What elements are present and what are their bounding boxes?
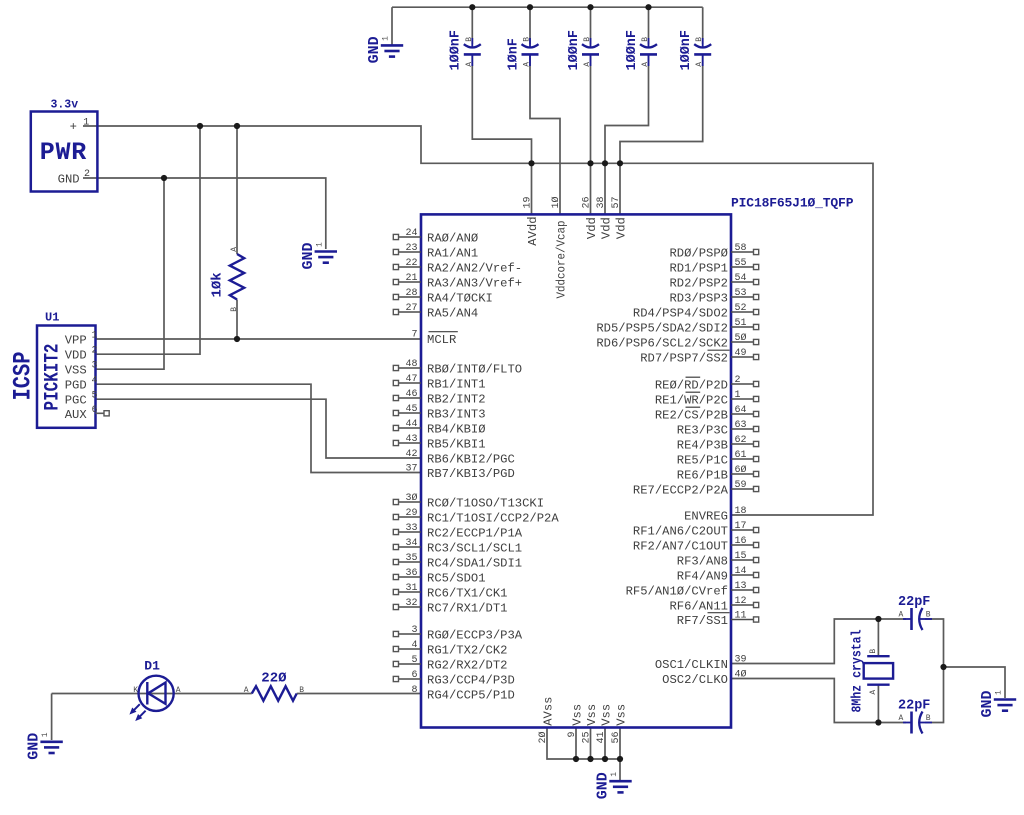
svg-text:18: 18 [735, 506, 747, 517]
wire 10k bottom [236, 300, 238, 340]
svg-text:Vss: Vss [614, 704, 628, 726]
svg-text:VPP: VPP [65, 334, 87, 348]
svg-text:1: 1 [382, 36, 391, 41]
svg-text:RE5/P1C: RE5/P1C [677, 454, 728, 468]
svg-text:3.3v: 3.3v [51, 99, 79, 112]
pin 1 VPP of U1 [65, 331, 98, 348]
pin 53 RD3/PSP3 of U2 [669, 288, 758, 305]
pin 44 RB4/KBI0 of U2 [393, 419, 485, 436]
pin 13 RF5/AN10/CVref of U2 [626, 581, 759, 598]
wire VSS to GND [96, 178, 165, 369]
svg-text:1ØnF: 1ØnF [506, 38, 521, 70]
svg-text:RD5/PSP5/SDA2/SDI2: RD5/PSP5/SDA2/SDI2 [596, 322, 728, 336]
svg-text:1ØØnF: 1ØØnF [567, 30, 582, 71]
junction Vss bus 9 [573, 756, 579, 762]
svg-text:RC6/TX1/CK1: RC6/TX1/CK1 [427, 587, 507, 601]
wire cap C5 top [702, 7, 704, 44]
svg-text:41: 41 [596, 731, 607, 743]
pin 7 MCLR of U2 [399, 330, 458, 347]
svg-text:RE1/WR/P2C: RE1/WR/P2C [655, 394, 728, 408]
svg-text:U1: U1 [45, 311, 59, 325]
svg-text:B: B [695, 37, 704, 42]
svg-text:A: A [230, 247, 239, 252]
svg-text:RA4/TØCKI: RA4/TØCKI [427, 292, 493, 306]
svg-text:RG3/CCP4/P3D: RG3/CCP4/P3D [427, 674, 515, 688]
svg-text:RD7/PSP7/SS2: RD7/PSP7/SS2 [640, 352, 728, 366]
svg-text:42: 42 [405, 449, 417, 460]
svg-text:OSC1/CLKIN: OSC1/CLKIN [655, 658, 728, 672]
svg-text:ICSP: ICSP [9, 352, 38, 401]
pin 3 RG0/ECCP3/P3A of U2 [393, 625, 522, 642]
svg-text:RG1/TX2/CK2: RG1/TX2/CK2 [427, 644, 507, 658]
svg-text:22Ø: 22Ø [261, 670, 287, 686]
wire Vss 9 stub [575, 728, 577, 760]
wire cap C2 to Vddcore/Vcap pin [530, 54, 560, 214]
svg-text:A: A [869, 690, 878, 695]
svg-text:1: 1 [83, 118, 89, 129]
svg-text:RG2/RX2/DT2: RG2/RX2/DT2 [427, 659, 507, 673]
pin 33 RC2/ECCP1/P1A of U2 [393, 523, 522, 540]
junction caps GND node [940, 664, 946, 670]
pin 18 ENVREG of U2 [684, 506, 746, 523]
svg-text:7: 7 [411, 330, 417, 341]
pin 23 RA1/AN1 of U2 [393, 243, 478, 260]
svg-text:REØ/RD/P2D: REØ/RD/P2D [655, 379, 728, 393]
svg-text:B: B [523, 37, 532, 42]
junction Vdd rail / pin38 [602, 160, 608, 166]
svg-text:VSS: VSS [65, 364, 87, 378]
pin 27 RA5/AN4 of U2 [393, 303, 478, 320]
pin 63 RE3/P3C of U2 [677, 420, 759, 437]
capacitor C5 100nF [679, 30, 711, 71]
svg-text:B: B [926, 611, 931, 620]
svg-text:RF2/AN7/C1OUT: RF2/AN7/C1OUT [633, 540, 728, 554]
pin 57 Vdd of U2 (top) [611, 196, 628, 239]
svg-text:Vss: Vss [585, 704, 599, 726]
svg-text:+: + [70, 120, 77, 134]
capacitor C3 100nF [567, 30, 599, 71]
svg-text:AUX: AUX [65, 408, 88, 422]
svg-text:1: 1 [610, 772, 619, 777]
pin 10 Vddcore/Vcap of U2 (top) [550, 196, 568, 298]
svg-text:A: A [899, 714, 904, 723]
svg-text:5: 5 [91, 391, 97, 402]
svg-text:MCLR: MCLR [427, 333, 456, 347]
svg-text:A: A [583, 62, 592, 67]
svg-text:RBØ/INTØ/FLTO: RBØ/INTØ/FLTO [427, 363, 522, 377]
svg-text:RA1/AN1: RA1/AN1 [427, 247, 478, 261]
pin 41 Vss of U2 (bottom) [596, 704, 613, 744]
svg-text:RGØ/ECCP3/P3A: RGØ/ECCP3/P3A [427, 629, 523, 643]
wire cap C1 top [471, 7, 473, 44]
pin 50 RD6/PSP6/SCL2/SCK2 of U2 [596, 332, 758, 350]
svg-text:RD2/PSP2: RD2/PSP2 [669, 277, 728, 291]
pin 22 RA2/AN2/Vref- of U2 [393, 258, 522, 275]
svg-text:Vdd: Vdd [599, 217, 613, 239]
svg-text:B: B [230, 307, 239, 312]
svg-text:RD6/PSP6/SCL2/SCK2: RD6/PSP6/SCL2/SCK2 [596, 337, 728, 351]
svg-text:8Mhz crystal: 8Mhz crystal [851, 630, 866, 713]
svg-text:B: B [583, 37, 592, 42]
pin 38 Vdd of U2 (top) [596, 196, 613, 239]
resistor R2 220 [244, 670, 304, 700]
svg-text:Vss: Vss [570, 704, 584, 726]
pin 39 OSC1/CLKIN of U2 [655, 655, 747, 672]
svg-text:PGC: PGC [65, 394, 87, 408]
pin 4 RG1/TX2/CK2 of U2 [393, 640, 507, 657]
svg-text:Vdd: Vdd [614, 217, 628, 239]
svg-text:RC3/SCL1/SCL1: RC3/SCL1/SCL1 [427, 542, 522, 556]
junction Vss bus 56 [617, 756, 623, 762]
svg-text:RC2/ECCP1/P1A: RC2/ECCP1/P1A [427, 527, 523, 541]
svg-text:2Ø: 2Ø [537, 731, 549, 743]
wire 10k top [236, 126, 238, 254]
pin 34 RC3/SCL1/SCL1 of U2 [393, 538, 522, 555]
capacitor C6 22pF [898, 595, 932, 630]
pin 45 RB3/INT3 of U2 [393, 404, 485, 421]
pin 37 RB7/KBI3/PGD of U2 [399, 464, 515, 481]
pin 30 RC0/T1OSO/T13CKI of U2 [393, 492, 544, 510]
svg-text:26: 26 [582, 196, 593, 208]
pin 26 Vdd of U2 (top) [582, 196, 599, 239]
svg-text:B: B [641, 37, 650, 42]
wire VDD to +3.3V [96, 126, 201, 354]
pin 31 RC6/TX1/CK1 of U2 [393, 583, 507, 600]
junction +3.3V / VDD [197, 123, 203, 129]
pin 5 RG2/RX2/DT2 of U2 [393, 655, 507, 672]
wire crystal bottom to GND node [925, 667, 944, 723]
svg-text:1ØØnF: 1ØØnF [449, 30, 464, 71]
junction GND rail / C3 [587, 4, 593, 10]
svg-text:B: B [299, 686, 304, 695]
junction Vdd rail / pin26 [587, 160, 593, 166]
svg-text:RB5/KBI1: RB5/KBI1 [427, 438, 486, 452]
svg-text:RE3/P3C: RE3/P3C [677, 424, 728, 438]
svg-text:3: 3 [91, 361, 97, 372]
svg-text:RA2/AN2/Vref-: RA2/AN2/Vref- [427, 262, 522, 276]
capacitor C7 22pF [898, 698, 932, 733]
svg-text:4: 4 [91, 376, 97, 387]
svg-text:RC4/SDA1/SDI1: RC4/SDA1/SDI1 [427, 557, 522, 571]
pin 21 RA3/AN3/Vref+ of U2 [393, 273, 522, 290]
pin 52 RD4/PSP4/SDO2 of U2 [633, 303, 759, 320]
pin 43 RB5/KBI1 of U2 [393, 434, 485, 451]
capacitor C4 100nF [625, 30, 657, 71]
svg-text:GND: GND [26, 733, 43, 760]
svg-text:Vdd: Vdd [585, 217, 599, 239]
svg-text:RF7/SS1: RF7/SS1 [677, 614, 728, 628]
svg-text:RE4/P3B: RE4/P3B [677, 439, 728, 453]
junction +3.3V / R1 [234, 123, 240, 129]
connector U1 ICSP PICKIT2 [9, 311, 96, 428]
ground GND5 right [994, 700, 1016, 711]
pin 55 RD1/PSP1 of U2 [669, 258, 758, 275]
crystal Q1 8MHz [851, 630, 894, 713]
svg-text:22pF: 22pF [898, 698, 930, 713]
pin 36 RC5/SDO1 of U2 [393, 568, 485, 585]
pin 49 RD7/PSP7/SS2 of U2 [640, 348, 758, 365]
svg-text:PWR: PWR [40, 138, 87, 167]
pin 46 RB2/INT2 of U2 [393, 389, 485, 406]
svg-text:1ØØnF: 1ØØnF [625, 30, 640, 71]
pin 1 + of PWR [70, 118, 90, 135]
capacitor C1 100nF [449, 30, 481, 71]
pin 54 RD2/PSP2 of U2 [669, 273, 758, 290]
wire to GND symbol bottom left [51, 694, 53, 741]
pin 5 PGC of U1 [65, 391, 98, 408]
svg-text:A: A [465, 62, 474, 67]
wire AVss bus [547, 728, 620, 760]
pin 28 RA4/T0CKI of U2 [393, 288, 493, 305]
power supply PWR 3.3v [31, 99, 98, 192]
junction GND rail / C1 [469, 4, 475, 10]
wire crystal bottom lead [877, 685, 879, 723]
wire AVdd stub [531, 163, 533, 214]
svg-text:RDØ/PSPØ: RDØ/PSPØ [669, 247, 728, 261]
svg-text:GND: GND [58, 172, 80, 186]
junction Vdd rail / AVdd [528, 160, 534, 166]
junction crystal top [875, 616, 881, 622]
svg-text:B: B [869, 649, 878, 654]
pin 3 VSS of U1 [65, 361, 98, 378]
pin 58 RD0/PSP0 of U2 [669, 243, 758, 260]
svg-text:RAØ/ANØ: RAØ/ANØ [427, 232, 478, 246]
svg-text:OSC2/CLKO: OSC2/CLKO [662, 673, 728, 687]
wire PWR GND to ground [83, 178, 326, 249]
svg-text:RB6/KBI2/PGC: RB6/KBI2/PGC [427, 453, 515, 467]
svg-text:RD3/PSP3: RD3/PSP3 [669, 292, 728, 306]
svg-text:Vss: Vss [599, 704, 613, 726]
svg-text:RF1/AN6/C2OUT: RF1/AN6/C2OUT [633, 525, 728, 539]
wire to GND symbol [391, 7, 393, 44]
pin 11 RF7/SS1 of U2 [677, 611, 759, 628]
svg-text:RF3/AN8: RF3/AN8 [677, 555, 728, 569]
pin 40 OSC2/CLKO of U2 [662, 669, 746, 687]
svg-text:37: 37 [405, 464, 417, 475]
svg-text:57: 57 [611, 196, 622, 208]
pin 61 RE5/P1C of U2 [677, 450, 759, 467]
svg-text:RD1/PSP1: RD1/PSP1 [669, 262, 728, 276]
pin 64 RE2/CS/P2B of U2 [655, 405, 759, 422]
svg-text:2: 2 [84, 169, 90, 180]
wire GND3 to LED to R2 [52, 693, 252, 695]
svg-text:A: A [523, 62, 532, 67]
svg-text:RF4/AN9: RF4/AN9 [677, 570, 728, 584]
svg-text:1: 1 [41, 732, 50, 737]
LED D1 [130, 659, 181, 721]
junction Vss bus 25 [587, 756, 593, 762]
svg-text:RG4/CCP5/P1D: RG4/CCP5/P1D [427, 689, 515, 703]
svg-text:25: 25 [582, 731, 593, 743]
svg-text:1: 1 [91, 331, 97, 342]
pin 48 RB0/INT0/FLTO of U2 [393, 359, 522, 376]
wire R2 to RG4 [297, 693, 421, 695]
svg-text:RB7/KBI3/PGD: RB7/KBI3/PGD [427, 467, 515, 481]
pin 17 RF1/AN6/C2OUT of U2 [633, 521, 759, 538]
svg-text:GND: GND [595, 772, 612, 799]
svg-text:GND: GND [979, 690, 996, 717]
junction crystal bottom [875, 719, 881, 725]
wire bus to ground [619, 759, 621, 780]
svg-text:GND: GND [300, 242, 317, 269]
svg-text:1Ø: 1Ø [550, 196, 562, 208]
svg-text:A: A [176, 686, 181, 695]
svg-text:RE7/ECCP2/P2A: RE7/ECCP2/P2A [633, 484, 729, 498]
pin 20 AVss of U2 (bottom) [537, 697, 555, 744]
pin 2 GND of PWR [58, 169, 90, 186]
svg-text:RC7/RX1/DT1: RC7/RX1/DT1 [427, 602, 507, 616]
svg-text:RE2/CS/P2B: RE2/CS/P2B [655, 409, 728, 423]
wire cap C3 to Vdd pin 26 [590, 54, 592, 214]
wire GND top rail [392, 6, 703, 8]
svg-text:PICKIT2: PICKIT2 [42, 344, 65, 411]
wire +3.3V rail to ENVREG [83, 126, 873, 515]
svg-text:A: A [695, 62, 704, 67]
pin 25 Vss of U2 (bottom) [582, 704, 599, 744]
svg-text:22pF: 22pF [898, 595, 930, 610]
pin 15 RF3/AN8 of U2 [677, 551, 759, 568]
wire cap C2 top [529, 7, 531, 44]
wire OSC2 to crystal bottom [731, 679, 906, 723]
wire PGD to RB7 [96, 384, 422, 472]
svg-text:1: 1 [315, 242, 324, 247]
svg-text:1ØØnF: 1ØØnF [679, 30, 694, 71]
wire Vss 56 stub [619, 728, 621, 760]
svg-text:RB3/INT3: RB3/INT3 [427, 408, 486, 422]
wire cap C5 to Vdd pin 57 [620, 54, 703, 214]
pin 47 RB1/INT1 of U2 [393, 374, 485, 391]
svg-text:RB1/INT1: RB1/INT1 [427, 378, 486, 392]
wire OSC1 to crystal top [731, 619, 906, 664]
pin 35 RC4/SDA1/SDI1 of U2 [393, 553, 522, 570]
wire cap C4 to Vdd pin 38 [605, 54, 649, 214]
svg-text:38: 38 [596, 196, 607, 208]
svg-text:RB4/KBIØ: RB4/KBIØ [427, 423, 486, 437]
pin 9 Vss of U2 (bottom) [567, 704, 584, 738]
ground GND2 near PWR [315, 252, 337, 263]
wire cap C4 top [648, 7, 650, 44]
svg-text:D1: D1 [144, 659, 160, 674]
capacitor C2 10nF [506, 37, 538, 71]
svg-text:4Ø: 4Ø [735, 669, 747, 681]
pin 56 Vss of U2 (bottom) [611, 704, 628, 744]
svg-text:9: 9 [567, 731, 578, 737]
pin 59 RE7/ECCP2/P2A of U2 [633, 480, 759, 497]
pin 32 RC7/RX1/DT1 of U2 [393, 598, 507, 615]
svg-text:8: 8 [411, 685, 417, 696]
wire PGC to RB6 [96, 399, 422, 458]
svg-text:GND: GND [366, 36, 383, 63]
pin 2 RE0/RD/P2D of U2 [655, 375, 759, 392]
wire to GND right [944, 667, 1006, 698]
svg-text:RA5/AN4: RA5/AN4 [427, 307, 478, 321]
wire crystal top lead [877, 619, 879, 656]
svg-text:ENVREG: ENVREG [684, 510, 728, 524]
wire VPP to MCLR [96, 338, 422, 340]
svg-text:B: B [926, 714, 931, 723]
ground GND1 top [381, 45, 403, 56]
pin 2 VDD of U1 [65, 346, 98, 363]
svg-text:39: 39 [735, 655, 747, 666]
pin 29 RC1/T1OSI/CCP2/P2A of U2 [393, 508, 559, 525]
svg-text:RB2/INT2: RB2/INT2 [427, 393, 486, 407]
svg-text:2: 2 [91, 346, 97, 357]
pin 12 RF6/AN11 of U2 [669, 596, 758, 613]
pin 14 RF4/AN9 of U2 [677, 566, 759, 583]
wire cap C3 top [590, 7, 592, 44]
svg-text:B: B [465, 37, 474, 42]
junction GND rail / C2 [527, 4, 533, 10]
svg-text:RC5/SDO1: RC5/SDO1 [427, 572, 486, 586]
svg-text:A: A [899, 611, 904, 620]
svg-text:K: K [133, 686, 138, 695]
junction MCLR / R1 [234, 336, 240, 342]
pin 62 RE4/P3B of U2 [677, 435, 759, 452]
svg-text:AVss: AVss [541, 697, 555, 726]
svg-text:Vddcore/Vcap: Vddcore/Vcap [554, 221, 568, 299]
svg-text:PGD: PGD [65, 379, 87, 393]
svg-text:A: A [641, 62, 650, 67]
ground GND3 bottom left [40, 742, 62, 753]
pin 8 RG4/CCP5/P1D of U2 [399, 685, 515, 702]
svg-text:RCØ/T1OSO/T13CKI: RCØ/T1OSO/T13CKI [427, 497, 544, 511]
wire cap C1 to AVdd [472, 54, 531, 163]
svg-text:RF5/AN1Ø/CVref: RF5/AN1Ø/CVref [626, 585, 728, 599]
pin 1 RE1/WR/P2C of U2 [655, 390, 759, 407]
pin 4 PGD of U1 [65, 376, 98, 393]
svg-text:AVdd: AVdd [526, 216, 540, 245]
svg-text:PIC18F65J1Ø_TQFP: PIC18F65J1Ø_TQFP [731, 196, 854, 211]
svg-text:RC1/T1OSI/CCP2/P2A: RC1/T1OSI/CCP2/P2A [427, 512, 559, 526]
svg-text:1: 1 [995, 690, 1004, 695]
pin 19 AVdd of U2 (top) [523, 196, 540, 245]
pin 51 RD5/PSP5/SDA2/SDI2 of U2 [596, 318, 758, 335]
junction Vss bus 41 [602, 756, 608, 762]
resistor R1 10k [210, 247, 245, 312]
svg-text:RD4/PSP4/SDO2: RD4/PSP4/SDO2 [633, 307, 728, 321]
svg-text:RE6/P1B: RE6/P1B [677, 469, 728, 483]
svg-text:A: A [244, 686, 249, 695]
junction GND rail / C4 [645, 4, 651, 10]
wire Vss 41 stub [604, 728, 606, 760]
pin 6 RG3/CCP4/P3D of U2 [393, 670, 514, 687]
svg-text:56: 56 [611, 731, 622, 743]
svg-text:1Øk: 1Øk [210, 272, 226, 297]
junction GND / VSS [161, 175, 167, 181]
svg-text:6: 6 [91, 405, 97, 416]
IC U2 PIC18F65J10_TQFP [421, 196, 854, 728]
wire crystal top to GND node [925, 619, 944, 667]
svg-text:19: 19 [523, 196, 534, 208]
pin 6 AUX of U1 [65, 405, 109, 422]
junction Vdd rail / pin57 [617, 160, 623, 166]
pin 16 RF2/AN7/C1OUT of U2 [633, 536, 759, 553]
svg-text:RA3/AN3/Vref+: RA3/AN3/Vref+ [427, 277, 522, 291]
svg-text:RF6/AN11: RF6/AN11 [669, 600, 728, 614]
pin 24 RA0/AN0 of U2 [393, 228, 478, 245]
pin 42 RB6/KBI2/PGC of U2 [399, 449, 515, 466]
pin 60 RE6/P1B of U2 [677, 464, 759, 482]
ground GND4 below IC [609, 781, 631, 792]
svg-text:VDD: VDD [65, 349, 87, 363]
wire Vss 25 stub [590, 728, 592, 760]
